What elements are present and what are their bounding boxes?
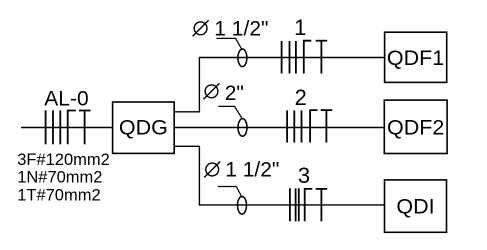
cable mark branch 1 ground — [316, 41, 328, 74]
cable mark branch 3 ground — [316, 189, 328, 221]
conduit ellipse branch 2 — [238, 119, 247, 137]
svg-text:QDI: QDI — [396, 195, 434, 219]
label diameter symbol branch 3 — [204, 162, 220, 178]
cable mark branch 3 neutral — [305, 189, 313, 221]
conduit ellipse branch 3 — [238, 197, 247, 215]
cable marks branch 1 (3F) — [282, 41, 296, 74]
wire: branch 2 (QDG to QDF2) — [174, 127, 384, 129]
conduit ellipse branch 1 — [238, 49, 247, 67]
svg-text:2": 2" — [225, 82, 244, 105]
svg-text:2: 2 — [295, 85, 307, 110]
svg-text:1 1/2": 1 1/2" — [225, 159, 279, 182]
cable mark branch 1 neutral — [304, 41, 312, 74]
panel QDG — [113, 102, 175, 153]
panel QDI — [385, 180, 447, 232]
label diameter symbol branch 1 — [193, 20, 209, 36]
svg-text:QDF2: QDF2 — [387, 115, 444, 139]
svg-text:1: 1 — [294, 15, 306, 40]
cable marks feeder (3F) — [46, 110, 61, 144]
wire: branch 3 (QDG to QDI) — [174, 146, 384, 205]
svg-text:QDG: QDG — [119, 116, 168, 140]
leader branch 2 — [218, 106, 242, 118]
cable mark branch 2 ground — [321, 110, 333, 142]
leader branch 1 — [217, 38, 243, 50]
svg-text:QDF1: QDF1 — [387, 46, 444, 70]
wire: incoming feeder W0 — [21, 127, 113, 129]
svg-text:1 1/2": 1 1/2" — [214, 17, 268, 40]
label diameter symbol branch 2 — [204, 83, 220, 99]
svg-text:3F#120mm2: 3F#120mm2 — [17, 151, 110, 169]
svg-text:3: 3 — [298, 163, 310, 188]
leader branch 3 — [218, 187, 242, 198]
svg-text:AL-0: AL-0 — [44, 87, 88, 110]
cable mark feeder neutral (1N) — [68, 111, 76, 145]
svg-text:1N#70mm2: 1N#70mm2 — [17, 169, 102, 187]
cable marks branch 3 (3F) — [290, 188, 299, 221]
panel QDF1 — [385, 32, 447, 82]
cable mark branch 2 neutral — [310, 110, 318, 142]
cable marks branch 2 (3F) — [287, 110, 301, 142]
svg-text:1T#70mm2: 1T#70mm2 — [17, 186, 100, 204]
panel QDF2 — [384, 100, 447, 153]
cable mark feeder ground (1T) — [79, 111, 91, 145]
wire: branch 1 (QDG to QDF1) — [174, 58, 384, 112]
